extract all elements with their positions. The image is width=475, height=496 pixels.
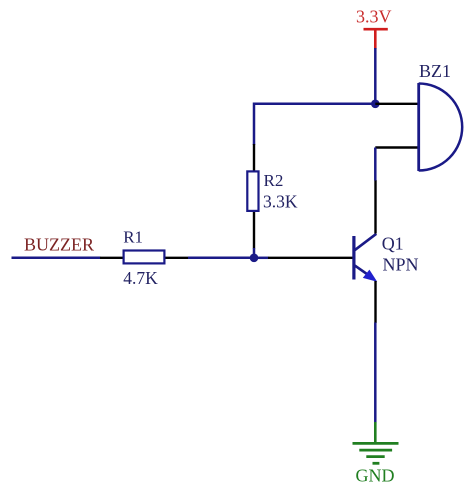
buzzer pin 1: [375, 103, 418, 105]
wire power to node A: [374, 48, 377, 104]
junction node B: [250, 253, 259, 262]
svg-text:Q1: Q1: [382, 233, 404, 253]
wire node B to Q1 base pin: [254, 257, 269, 260]
transistor Q1 base pin: [268, 257, 353, 259]
svg-text:BZ1: BZ1: [419, 61, 451, 81]
transistor Q1 symbol: [354, 234, 377, 282]
svg-text:GND: GND: [356, 466, 395, 486]
buzzer pin 2: [375, 146, 418, 148]
transistor Q1 collector pin: [374, 180, 376, 234]
svg-text:R2: R2: [264, 171, 284, 190]
resistor R2 pin bottom: [253, 212, 255, 249]
wire BUZZER net to R1: [12, 257, 101, 260]
resistor R1 body: [124, 251, 165, 264]
buzzer BZ1 symbol: [419, 83, 463, 171]
wire node A to R2 top corner: [254, 104, 375, 145]
wire emitter to ground: [374, 323, 377, 423]
power port bar symbol: [364, 29, 388, 49]
resistor R1 pin left: [100, 257, 123, 259]
svg-text:R1: R1: [123, 227, 143, 246]
svg-text:NPN: NPN: [383, 254, 419, 274]
svg-text:BUZZER: BUZZER: [24, 234, 94, 254]
ground symbol bars: [353, 443, 399, 463]
wire R2 to node B: [253, 248, 256, 258]
wire R1 to node B: [188, 257, 254, 260]
resistor R1 pin right: [166, 257, 189, 259]
ground symbol stem: [374, 422, 377, 443]
wire collector to buzzer pin2 corner: [374, 148, 377, 181]
svg-text:3.3V: 3.3V: [356, 7, 392, 27]
resistor R2 pin top: [253, 144, 255, 171]
resistor R2 body: [247, 171, 258, 211]
svg-text:3.3K: 3.3K: [263, 191, 298, 211]
svg-text:4.7K: 4.7K: [123, 268, 158, 288]
junction node A: [371, 100, 380, 109]
transistor Q1 emitter pin: [374, 281, 376, 323]
